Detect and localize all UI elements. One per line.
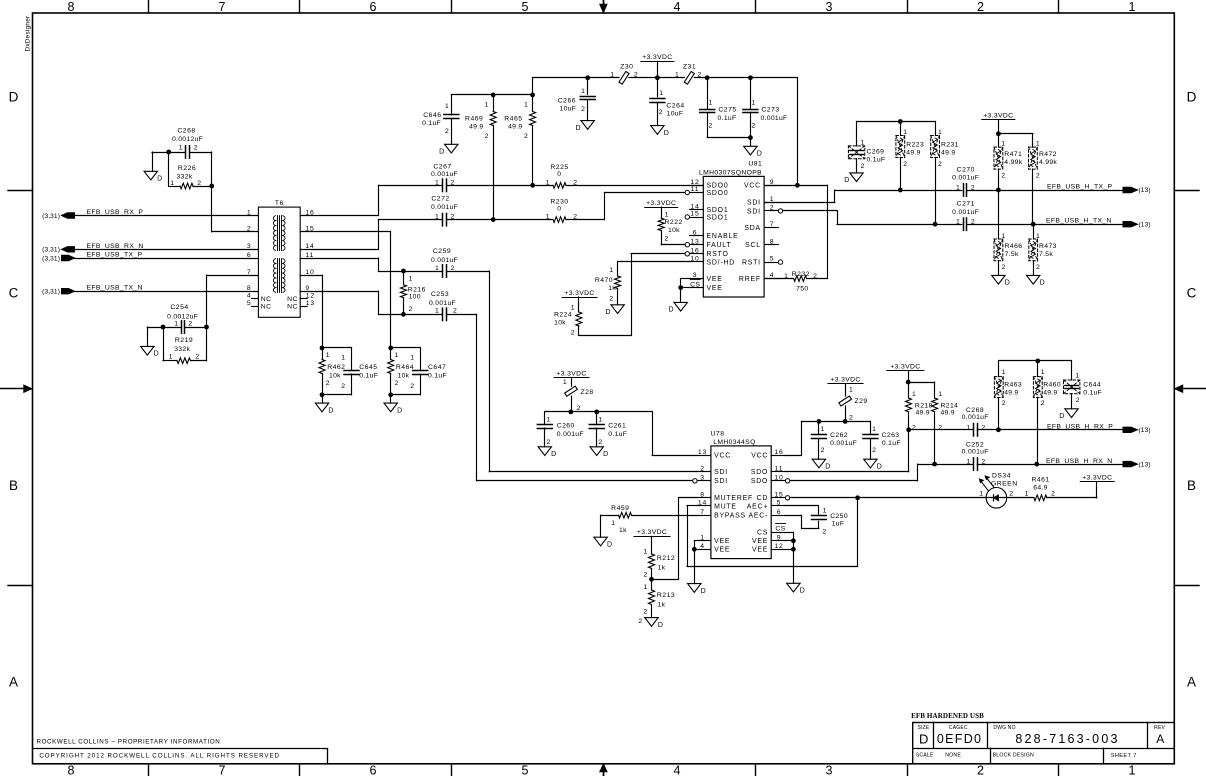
svg-text:R472: R472 — [1039, 151, 1057, 158]
svg-text:2: 2 — [326, 380, 331, 387]
svg-text:LMH0307SQNOPB: LMH0307SQNOPB — [699, 170, 762, 177]
wire T6 pin14 to SDO0 rail — [300, 220, 378, 250]
svg-text:64.9: 64.9 — [1033, 484, 1047, 491]
wire Z29 rail — [801, 421, 870, 433]
svg-text:5: 5 — [522, 0, 529, 14]
svg-text:C253: C253 — [431, 291, 449, 298]
svg-text:FAULT: FAULT — [707, 242, 732, 249]
junction — [209, 184, 214, 189]
svg-text:1: 1 — [644, 584, 649, 591]
resistor R224 10k — [554, 297, 582, 337]
svg-text:2: 2 — [195, 353, 200, 360]
svg-text:1: 1 — [872, 426, 877, 433]
svg-text:C: C — [1187, 286, 1197, 301]
LED DS34 GREEN — [979, 472, 1018, 508]
svg-text:10uF: 10uF — [559, 105, 576, 112]
svg-text:1: 1 — [247, 209, 252, 216]
svg-text:2: 2 — [1002, 264, 1007, 271]
wire EFB_USB_H_RX_P — [909, 429, 1123, 431]
svg-text:6: 6 — [777, 509, 782, 516]
wire C646/R469 link — [451, 94, 532, 96]
svg-text:R230: R230 — [550, 198, 568, 205]
svg-text:7: 7 — [770, 221, 775, 228]
svg-text:D: D — [919, 731, 928, 746]
svg-text:3: 3 — [700, 474, 705, 481]
svg-text:49.9: 49.9 — [1043, 389, 1057, 396]
svg-text:7: 7 — [219, 0, 226, 14]
svg-text:1: 1 — [912, 391, 917, 398]
capacitor C273 0.001uF — [743, 78, 788, 138]
svg-text:2: 2 — [197, 180, 202, 187]
resistor R460 49.9 — [1033, 361, 1061, 464]
wire EFB_USB_RX_N — [75, 249, 259, 251]
svg-text:EFB_USB_RX_N: EFB_USB_RX_N — [87, 243, 144, 250]
svg-text:D: D — [551, 451, 557, 458]
svg-text:1: 1 — [675, 72, 680, 79]
svg-text:C275: C275 — [718, 107, 736, 114]
junction — [388, 392, 393, 397]
svg-text:NC: NC — [261, 296, 272, 303]
capacitor C263 0.1uF — [863, 426, 901, 459]
svg-text:Z29: Z29 — [855, 398, 868, 405]
svg-text:NC: NC — [261, 303, 272, 310]
svg-text:CS: CS — [690, 281, 700, 288]
svg-text:2: 2 — [1076, 397, 1081, 404]
svg-text:SDO: SDO — [751, 478, 768, 485]
wire SD/-HD to R470 — [618, 261, 690, 263]
svg-text:11: 11 — [691, 186, 700, 193]
svg-text:332k: 332k — [174, 346, 190, 353]
svg-text:(13): (13) — [1139, 461, 1151, 468]
junction — [320, 392, 325, 397]
svg-text:R459: R459 — [611, 505, 629, 512]
svg-text:7: 7 — [219, 764, 226, 776]
svg-text:+3.3VDC: +3.3VDC — [646, 200, 676, 207]
svg-text:SDI: SDI — [714, 478, 728, 485]
svg-text:49.9: 49.9 — [941, 150, 955, 157]
svg-text:2: 2 — [581, 106, 586, 113]
svg-text:0.0012uF: 0.0012uF — [167, 313, 198, 320]
junction — [748, 135, 753, 140]
wire T6 pin15 to R464/C647 — [300, 232, 390, 348]
svg-text:+3.3VDC: +3.3VDC — [637, 529, 667, 536]
resistor R463 49.9 — [994, 361, 1022, 430]
svg-text:2: 2 — [665, 236, 670, 243]
svg-text:1: 1 — [581, 88, 586, 95]
svg-text:15: 15 — [690, 211, 699, 218]
capacitor C254 0.0012uF — [163, 304, 207, 333]
svg-text:2: 2 — [598, 439, 603, 446]
junction — [898, 119, 903, 124]
wire C275/C273 bottoms — [707, 138, 750, 147]
svg-text:C646: C646 — [423, 112, 441, 119]
svg-text:R470: R470 — [595, 277, 613, 284]
power +3.3VDC — [887, 363, 924, 370]
junction — [996, 427, 1001, 432]
svg-text:0.001uF: 0.001uF — [557, 431, 584, 438]
ferrite bead Z29 — [839, 384, 868, 422]
wire T6 pin11 to C259 rail — [300, 258, 378, 271]
svg-text:6: 6 — [370, 764, 377, 776]
svg-text:D: D — [1059, 413, 1065, 420]
svg-text:SHEET 7: SHEET 7 — [1111, 753, 1137, 759]
svg-text:8: 8 — [68, 0, 75, 14]
svg-text:D: D — [603, 451, 609, 458]
node EFB_USB_TX_P off-page (3,31) — [42, 252, 142, 263]
svg-text:12: 12 — [690, 179, 699, 186]
svg-text:10: 10 — [305, 269, 314, 276]
resistor R461 64.9 — [1025, 476, 1056, 500]
svg-text:VEE: VEE — [714, 538, 730, 545]
wire EFB_USB_H_TX_N — [967, 224, 1123, 226]
svg-text:1: 1 — [341, 355, 346, 362]
svg-text:2: 2 — [1036, 172, 1041, 179]
svg-text:1: 1 — [709, 100, 714, 107]
capacitor C264 10uF — [650, 78, 685, 126]
svg-text:R225: R225 — [550, 164, 568, 171]
junction — [585, 75, 590, 80]
svg-text:0.1uF: 0.1uF — [718, 115, 737, 122]
svg-text:D: D — [658, 622, 664, 629]
svg-text:EFB_USB_H_TX_P: EFB_USB_H_TX_P — [1047, 184, 1112, 191]
ground — [315, 403, 334, 414]
wire EFB_USB_RX_P — [75, 215, 259, 217]
svg-text:R216: R216 — [408, 287, 426, 294]
svg-text:R222: R222 — [665, 219, 683, 226]
svg-text:0EFD0: 0EFD0 — [937, 732, 982, 746]
wire AEC- to C250 — [785, 515, 819, 528]
svg-text:0.001uF: 0.001uF — [952, 209, 979, 216]
svg-text:16: 16 — [774, 449, 783, 456]
resistor R214 49.9 — [932, 382, 959, 464]
ground — [575, 121, 594, 132]
svg-text:2: 2 — [821, 447, 826, 454]
svg-text:ROCKWELL COLLINS – PROPRIETARY: ROCKWELL COLLINS – PROPRIETARY INFORMATI… — [37, 739, 221, 746]
svg-text:1: 1 — [659, 90, 664, 97]
svg-text:EFB_USB_H_RX_N: EFB_USB_H_RX_N — [1046, 458, 1112, 465]
svg-text:R462: R462 — [327, 364, 345, 371]
svg-text:8: 8 — [247, 285, 252, 292]
ground — [668, 302, 687, 313]
svg-text:LMH0344SQ: LMH0344SQ — [713, 439, 755, 446]
svg-text:D: D — [9, 90, 19, 105]
wire SDIB rail to U78 pin3 — [378, 314, 692, 481]
svg-text:2: 2 — [524, 133, 529, 140]
wire R463/R460/C644 rail — [999, 360, 1072, 362]
resistor R471 4.99k — [994, 134, 1023, 190]
svg-text:(13): (13) — [1139, 187, 1151, 194]
svg-text:R213: R213 — [657, 592, 675, 599]
ground — [992, 275, 1011, 286]
power +3.3VDC — [554, 371, 589, 378]
wire C268/R226 left to ground — [152, 152, 169, 171]
svg-text:10: 10 — [690, 255, 699, 262]
transformer T6 — [247, 200, 315, 317]
resistor R222 10k — [658, 207, 683, 245]
svg-text:C267: C267 — [433, 163, 451, 170]
svg-text:1: 1 — [170, 180, 175, 187]
svg-text:+3.3VDC: +3.3VDC — [564, 290, 594, 297]
svg-text:D: D — [157, 176, 163, 183]
svg-text:R460: R460 — [1043, 382, 1061, 389]
svg-text:SDI: SDI — [747, 200, 761, 207]
svg-text:SDO: SDO — [751, 469, 768, 476]
svg-text:B: B — [1187, 478, 1196, 493]
junction — [1035, 359, 1040, 364]
svg-text:2: 2 — [659, 109, 664, 116]
svg-text:CAGEC: CAGEC — [949, 725, 968, 731]
svg-text:SCL: SCL — [745, 242, 761, 249]
svg-text:0.1uF: 0.1uF — [428, 372, 447, 379]
svg-text:SDO0: SDO0 — [707, 190, 729, 197]
svg-text:CS: CS — [757, 530, 768, 537]
power +3.3VDC — [634, 529, 670, 536]
svg-text:2: 2 — [1051, 491, 1056, 498]
svg-text:100: 100 — [409, 294, 421, 301]
svg-text:1: 1 — [770, 196, 775, 203]
svg-text:1: 1 — [1001, 141, 1006, 148]
svg-text:1: 1 — [644, 549, 649, 556]
svg-text:R473: R473 — [1039, 243, 1057, 250]
svg-text:2: 2 — [912, 424, 917, 431]
junction — [649, 577, 654, 582]
ground — [439, 144, 458, 155]
svg-text:2: 2 — [634, 72, 639, 79]
wire R464/C647 top — [391, 347, 421, 349]
svg-text:8: 8 — [700, 491, 705, 498]
wire T6 pin9 to C253 rail — [300, 291, 378, 314]
svg-text:+3.3VDC: +3.3VDC — [556, 371, 586, 378]
wire SDI rail to U78 pin2 — [378, 271, 697, 472]
svg-text:2: 2 — [644, 609, 649, 616]
svg-text:2: 2 — [638, 618, 643, 625]
svg-text:SD/-HD: SD/-HD — [707, 259, 736, 266]
svg-text:A: A — [1187, 675, 1196, 690]
svg-text:49.9: 49.9 — [941, 409, 955, 416]
svg-text:(13): (13) — [1139, 427, 1151, 434]
resistor R470 1k — [595, 262, 621, 305]
svg-text:NC: NC — [287, 296, 298, 303]
ground — [688, 584, 707, 595]
svg-text:0.1uF: 0.1uF — [359, 372, 378, 379]
svg-text:1: 1 — [609, 267, 614, 274]
svg-text:2: 2 — [573, 214, 578, 221]
svg-text:2: 2 — [752, 122, 757, 129]
svg-text:2: 2 — [609, 295, 614, 302]
svg-text:D: D — [825, 463, 831, 470]
svg-text:U81: U81 — [748, 160, 762, 167]
wire vertical C254 left — [163, 327, 165, 361]
svg-text:1: 1 — [821, 426, 826, 433]
svg-text:49.9: 49.9 — [906, 150, 920, 157]
svg-text:C266: C266 — [558, 97, 576, 104]
svg-text:2: 2 — [485, 133, 490, 140]
svg-text:1: 1 — [409, 276, 414, 283]
svg-text:C268: C268 — [177, 127, 195, 134]
resistor R230 0 — [546, 198, 578, 222]
svg-text:1: 1 — [598, 417, 603, 424]
svg-text:R231: R231 — [941, 142, 959, 149]
node EFB_USB_H_TX_N off-page (13) — [1046, 217, 1151, 228]
resistor R462 10k — [319, 348, 345, 395]
wire U78 VEE left to ground — [694, 541, 697, 584]
svg-text:Z31: Z31 — [683, 64, 696, 71]
wire R464/C647 bottom — [391, 395, 421, 404]
svg-text:COPYRIGHT 2012 ROCKWELL COLL: COPYRIGHT 2012 ROCKWELL COLLINS. ALL RIG… — [39, 752, 280, 759]
svg-text:MUTE: MUTE — [714, 503, 737, 510]
svg-text:0.001uF: 0.001uF — [431, 171, 458, 178]
wire C269/R223/R231 rail — [857, 121, 936, 123]
svg-text:1: 1 — [967, 424, 972, 431]
svg-text:1: 1 — [1041, 369, 1046, 376]
svg-text:3: 3 — [247, 243, 252, 250]
node EFB_USB_H_TX_P off-page (13) — [1047, 184, 1151, 195]
wire BYPASS — [601, 515, 698, 537]
capacitor C261 0.1uF — [589, 412, 627, 447]
capacitor C269 0.1uF — [848, 122, 885, 173]
svg-text:0.1uF: 0.1uF — [1083, 389, 1102, 396]
svg-text:332k: 332k — [177, 173, 193, 180]
capacitor C252 0.001uF — [962, 441, 989, 470]
svg-text:R461: R461 — [1031, 476, 1049, 483]
svg-text:VEE: VEE — [707, 276, 723, 283]
svg-text:D: D — [1187, 90, 1197, 105]
svg-text:+3.3VDC: +3.3VDC — [890, 363, 920, 370]
wire EFB_USB_H_RX_N — [935, 464, 1123, 466]
svg-text:2: 2 — [1002, 400, 1007, 407]
svg-text:8: 8 — [770, 238, 775, 245]
svg-text:5: 5 — [522, 764, 529, 776]
junction — [655, 75, 660, 80]
svg-text:11: 11 — [775, 465, 784, 472]
svg-text:0.001uF: 0.001uF — [429, 300, 456, 307]
wire +3.3V rail — [533, 78, 798, 186]
svg-text:2: 2 — [577, 405, 582, 412]
ferrite bead Z30 — [610, 64, 638, 85]
wire C268/R226 to T6 pin 2 — [212, 152, 259, 232]
svg-text:1: 1 — [1129, 0, 1136, 14]
node CS — [690, 280, 700, 289]
node EFB_USB_RX_N off-page (3,31) — [42, 243, 143, 254]
svg-text:(3,31): (3,31) — [42, 255, 60, 262]
svg-text:2: 2 — [194, 145, 199, 152]
ground — [594, 537, 613, 548]
svg-text:1: 1 — [752, 100, 757, 107]
junction — [388, 346, 393, 351]
wire MUTEREF to divider — [652, 498, 698, 580]
svg-text:7.5k: 7.5k — [1039, 251, 1053, 258]
svg-text:6: 6 — [247, 252, 252, 259]
svg-text:REV: REV — [1154, 725, 1165, 731]
resistor R464 10k — [388, 348, 414, 395]
svg-text:12: 12 — [774, 543, 783, 550]
op-amp U81 LMH0307SQNOPB — [685, 160, 783, 297]
svg-text:1: 1 — [823, 508, 828, 515]
svg-text:2: 2 — [573, 179, 578, 186]
junction — [906, 380, 911, 385]
svg-text:10k: 10k — [398, 372, 410, 379]
svg-text:1: 1 — [326, 352, 331, 359]
svg-text:C644: C644 — [1083, 382, 1101, 389]
svg-text:13: 13 — [306, 300, 315, 307]
junction — [898, 188, 903, 193]
resistor R465 49.9 — [504, 78, 535, 186]
svg-text:1: 1 — [610, 72, 615, 79]
svg-text:0.001uF: 0.001uF — [431, 257, 458, 264]
svg-text:1: 1 — [938, 129, 943, 136]
ferrite bead Z31 — [675, 64, 702, 85]
svg-text:2: 2 — [861, 163, 866, 170]
svg-text:2: 2 — [395, 380, 400, 387]
svg-text:R223: R223 — [906, 142, 924, 149]
resistor R219 332k — [163, 337, 207, 364]
wire R461 to +3.3V — [1047, 482, 1097, 498]
svg-text:A: A — [1156, 732, 1164, 746]
svg-text:10uF: 10uF — [667, 110, 684, 117]
junction — [1034, 462, 1039, 467]
svg-text:VEE: VEE — [752, 547, 768, 554]
svg-text:13: 13 — [690, 238, 699, 245]
svg-text:1: 1 — [1025, 491, 1030, 498]
junction — [932, 462, 937, 467]
svg-text:SDO1: SDO1 — [707, 207, 729, 214]
svg-text:VEE: VEE — [707, 285, 723, 292]
svg-text:C270: C270 — [957, 166, 975, 173]
svg-text:SDI: SDI — [747, 208, 761, 215]
ground — [605, 305, 624, 316]
svg-text:1: 1 — [445, 103, 450, 110]
svg-text:SDA: SDA — [744, 225, 761, 232]
resistor R225 0 — [546, 164, 578, 188]
svg-text:C254: C254 — [170, 304, 188, 311]
svg-text:R226: R226 — [178, 165, 196, 172]
svg-text:750: 750 — [796, 286, 808, 293]
svg-text:1: 1 — [563, 379, 568, 386]
svg-text:1: 1 — [174, 321, 179, 328]
junction — [320, 346, 325, 351]
wire R471/R472 feed — [998, 120, 1033, 134]
wire SDO0 rail — [378, 185, 703, 187]
svg-text:C252: C252 — [966, 441, 984, 448]
wire EFB_USB_TX_N — [75, 291, 259, 293]
svg-text:2: 2 — [571, 330, 576, 337]
ferrite bead Z28 — [563, 378, 594, 412]
svg-text:2: 2 — [698, 72, 703, 79]
junction — [401, 269, 406, 274]
ground — [141, 346, 160, 357]
wire U81 VCC — [764, 185, 827, 278]
junction — [791, 538, 796, 543]
junction — [795, 183, 800, 188]
resistor R223 49.9 — [896, 122, 924, 191]
svg-text:0.001uF: 0.001uF — [760, 115, 787, 122]
svg-text:2: 2 — [1001, 172, 1006, 179]
svg-text:2: 2 — [822, 528, 827, 535]
junction — [748, 75, 753, 80]
svg-text:9: 9 — [777, 534, 782, 541]
junction — [491, 217, 496, 222]
junction — [843, 419, 848, 424]
svg-text:1: 1 — [395, 352, 400, 359]
svg-text:4: 4 — [247, 292, 252, 299]
svg-text:D: D — [439, 149, 445, 156]
ground — [787, 583, 806, 594]
svg-text:EFB_USB_H_TX_N: EFB_USB_H_TX_N — [1046, 217, 1112, 224]
svg-text:7: 7 — [700, 509, 705, 516]
svg-text:5: 5 — [770, 256, 775, 263]
svg-text:7: 7 — [247, 269, 252, 276]
wire RREF to R232 — [764, 278, 827, 280]
